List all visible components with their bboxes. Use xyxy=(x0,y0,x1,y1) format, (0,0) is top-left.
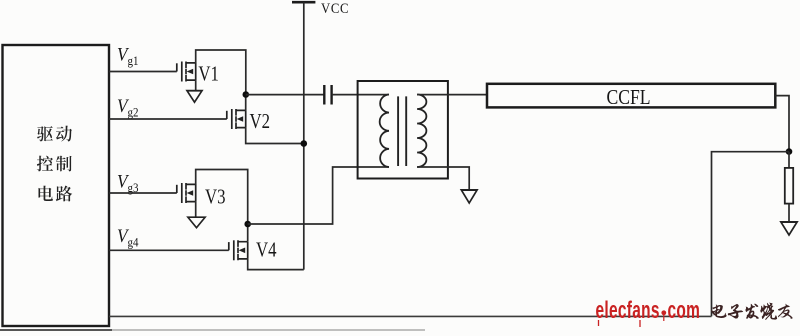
ground transformer secondary xyxy=(461,190,477,203)
svg-text:V3: V3 xyxy=(205,186,226,209)
svg-text:com: com xyxy=(668,296,701,324)
transformer core xyxy=(398,96,406,166)
wire node D feedback xyxy=(712,152,790,317)
wire V3 drain to node C xyxy=(196,170,248,225)
transformer outer box xyxy=(358,81,448,179)
svg-text:V4: V4 xyxy=(256,239,277,262)
bottom return wire xyxy=(109,315,712,317)
box text 驱动控制电路 xyxy=(37,126,72,202)
wire Vg4 gate xyxy=(109,249,229,251)
node A xyxy=(243,91,250,98)
wire node C to primary bottom xyxy=(248,167,389,224)
wire VCC vertical xyxy=(303,2,305,269)
wire resistor to ground xyxy=(788,204,790,222)
capacitor xyxy=(324,85,331,105)
ground V1 xyxy=(187,91,202,103)
node D xyxy=(786,148,793,155)
scan artifact line xyxy=(0,329,112,331)
transistor V1 xyxy=(177,62,196,82)
transistor V4 xyxy=(229,240,248,260)
watermark 电子发烧友 xyxy=(711,303,792,320)
ground R1 xyxy=(781,222,797,235)
node B xyxy=(301,140,308,147)
transformer secondary winding xyxy=(417,95,426,168)
node C xyxy=(244,221,251,228)
wire V4 drain xyxy=(247,224,249,242)
svg-text:VCC: VCC xyxy=(321,1,349,17)
svg-text:CCFL: CCFL xyxy=(607,87,651,110)
svg-text:elecfans: elecfans xyxy=(596,296,660,324)
svg-text:V2: V2 xyxy=(250,110,271,133)
wire V1 drain to node A xyxy=(196,50,246,95)
wire capacitor to primary xyxy=(332,94,389,96)
wire V2 drain xyxy=(245,95,247,111)
wire secondary to CCFL xyxy=(417,94,487,96)
svg-text:V1: V1 xyxy=(198,63,219,86)
wire Vg1 gate xyxy=(109,71,177,73)
ground V3 xyxy=(188,217,205,228)
wire V1 source xyxy=(195,80,197,91)
resistor R1 xyxy=(785,168,793,204)
wire V3 source xyxy=(195,202,197,218)
wire CCFL right to node D xyxy=(775,96,789,152)
transistor V3 xyxy=(177,183,196,203)
transistor V2 xyxy=(227,109,246,129)
VCC rail bar xyxy=(292,1,315,4)
wire V2 source to node B xyxy=(246,128,304,144)
wire Vg3 gate xyxy=(109,192,177,194)
wire Vg2 gate xyxy=(109,118,227,120)
driver control box xyxy=(3,45,110,326)
watermark elecfans.com xyxy=(596,296,701,327)
CCFL lamp box xyxy=(487,84,775,108)
wire V4 source xyxy=(248,259,304,270)
wire node A to capacitor xyxy=(246,94,324,96)
transformer primary winding xyxy=(380,95,389,168)
wire secondary bottom xyxy=(417,167,469,190)
wire node D to resistor xyxy=(788,152,790,168)
